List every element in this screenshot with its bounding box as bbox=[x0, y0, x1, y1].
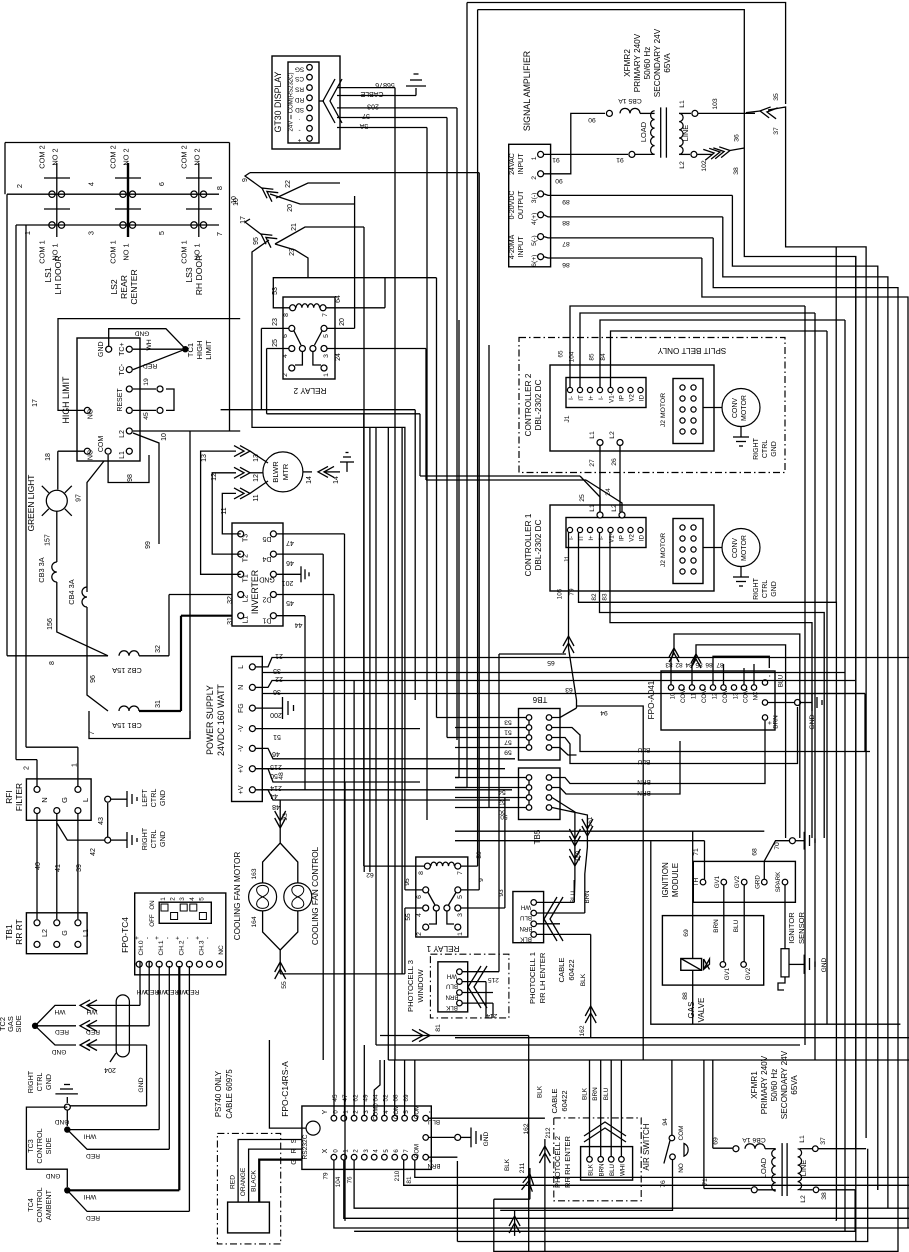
svg-text:GND: GND bbox=[158, 790, 167, 806]
svg-text:19: 19 bbox=[143, 378, 150, 386]
svg-text:23: 23 bbox=[289, 248, 296, 256]
svg-text:WH: WH bbox=[86, 1008, 97, 1015]
svg-text:GND: GND bbox=[259, 575, 275, 582]
svg-text:20: 20 bbox=[339, 318, 346, 326]
svg-text:85: 85 bbox=[589, 353, 596, 361]
svg-text:OFF: OFF bbox=[149, 914, 156, 927]
left bottom wires bbox=[344, 782, 346, 1221]
FPO-C14RS gnd bbox=[429, 1128, 491, 1148]
svg-text:J2 MOTOR: J2 MOTOR bbox=[660, 533, 667, 567]
breaker CB2 15A bbox=[7, 595, 232, 676]
svg-text:L1: L1 bbox=[589, 431, 596, 439]
wire 18 NC to lamp bbox=[45, 451, 84, 489]
svg-text:I+: I+ bbox=[588, 535, 595, 541]
svg-text:WH: WH bbox=[447, 973, 457, 980]
svg-text:CB4 3A: CB4 3A bbox=[67, 579, 76, 605]
svg-text:17: 17 bbox=[32, 399, 39, 407]
svg-text:L1: L1 bbox=[243, 616, 250, 624]
svg-text:-: - bbox=[144, 937, 151, 939]
svg-text:GT30 DISPLAY: GT30 DISPLAY bbox=[273, 71, 283, 132]
svg-text:BLU: BLU bbox=[570, 891, 577, 903]
svg-text:161: 161 bbox=[587, 816, 594, 827]
svg-text:GND: GND bbox=[771, 441, 778, 457]
svg-text:SD: SD bbox=[295, 106, 304, 113]
thermocouple TC2 bbox=[0, 961, 149, 1055]
wire 1 left bbox=[26, 225, 78, 786]
svg-text:RED: RED bbox=[86, 1214, 100, 1221]
photocell2 wires up bbox=[581, 1060, 621, 1157]
cable sleeve 204 bbox=[104, 995, 129, 1073]
svg-text:COM 1: COM 1 bbox=[109, 240, 118, 263]
svg-text:3(-): 3(-) bbox=[531, 193, 538, 204]
svg-text:7: 7 bbox=[457, 871, 464, 875]
svg-text:D2: D2 bbox=[262, 596, 271, 603]
svg-text:50: 50 bbox=[500, 813, 508, 820]
svg-text:35: 35 bbox=[773, 93, 780, 101]
svg-text:23: 23 bbox=[272, 318, 279, 326]
svg-text:69: 69 bbox=[712, 1137, 719, 1145]
svg-text:INVERTER: INVERTER bbox=[250, 570, 260, 614]
svg-text:IP: IP bbox=[619, 395, 626, 401]
svg-text:V2: V2 bbox=[629, 534, 636, 542]
svg-text:BLU: BLU bbox=[603, 1087, 610, 1100]
svg-text:MODULE: MODULE bbox=[671, 863, 680, 897]
svg-text:162: 162 bbox=[579, 1025, 586, 1036]
svg-text:BRN: BRN bbox=[599, 1163, 606, 1176]
svg-text:BRN: BRN bbox=[519, 925, 532, 932]
limit switch LS3 bbox=[180, 145, 213, 295]
svg-text:47: 47 bbox=[286, 539, 294, 546]
svg-text:10: 10 bbox=[233, 198, 240, 206]
svg-text:RED: RED bbox=[143, 362, 157, 369]
air switch S2 bbox=[500, 1060, 688, 1210]
svg-text:+: + bbox=[194, 936, 201, 940]
svg-text:V1-: V1- bbox=[609, 393, 616, 403]
svg-text:L1: L1 bbox=[799, 1135, 806, 1143]
svg-text:BLK: BLK bbox=[537, 1085, 544, 1098]
svg-text:2: 2 bbox=[416, 932, 423, 936]
wire 8 left bbox=[6, 194, 8, 656]
svg-text:203: 203 bbox=[367, 103, 379, 110]
svg-text:87: 87 bbox=[562, 240, 570, 247]
svg-text:3: 3 bbox=[87, 231, 96, 235]
svg-text:35: 35 bbox=[273, 667, 281, 674]
svg-text:J1: J1 bbox=[564, 555, 571, 562]
svg-text:LINE: LINE bbox=[799, 1160, 808, 1177]
svg-text:4: 4 bbox=[282, 354, 289, 358]
svg-text:LEFT: LEFT bbox=[140, 789, 149, 807]
svg-text:48: 48 bbox=[278, 772, 285, 780]
svg-text:1: 1 bbox=[323, 373, 330, 377]
thermocouple TC3 bbox=[26, 966, 169, 1164]
right bus verticals bbox=[805, 247, 865, 1241]
FPO-C14RS BLU BRN side wires bbox=[429, 1118, 545, 1157]
svg-text:COM: COM bbox=[98, 436, 105, 453]
wire 5A bbox=[337, 88, 427, 467]
svg-text:RS: RS bbox=[295, 86, 304, 93]
svg-text:I+: I+ bbox=[588, 395, 595, 401]
svg-text:+V: +V bbox=[238, 764, 245, 773]
terminal block TB5 bbox=[498, 768, 560, 844]
svg-text:6: 6 bbox=[282, 334, 289, 338]
svg-text:17: 17 bbox=[240, 216, 247, 224]
svg-text:NC: NC bbox=[754, 691, 760, 700]
svg-text:+V: +V bbox=[238, 785, 245, 794]
svg-text:24VAC: 24VAC bbox=[509, 153, 516, 175]
svg-text:+: + bbox=[297, 136, 301, 143]
svg-text:L1: L1 bbox=[679, 100, 686, 108]
svg-text:PHOTOCELL 2: PHOTOCELL 2 bbox=[553, 1136, 562, 1188]
svg-text:104: 104 bbox=[335, 1176, 342, 1187]
svg-text:COM 2: COM 2 bbox=[180, 145, 189, 168]
svg-text:36: 36 bbox=[273, 688, 281, 695]
wire channel verticals bbox=[364, 278, 499, 1060]
relay2 bottom wires bbox=[190, 410, 415, 739]
svg-text:CTRL: CTRL bbox=[149, 789, 158, 808]
FPO-C14RS Y wires up bbox=[354, 681, 415, 1116]
svg-text:INPUT: INPUT bbox=[518, 153, 525, 175]
svg-text:SIGNAL AMPLIFIER: SIGNAL AMPLIFIER bbox=[522, 51, 532, 131]
svg-text:45: 45 bbox=[332, 1094, 339, 1102]
svg-text:+: + bbox=[154, 936, 161, 940]
svg-text:44: 44 bbox=[295, 621, 303, 628]
svg-text:96: 96 bbox=[90, 675, 97, 683]
svg-text:24VDC 160 WATT: 24VDC 160 WATT bbox=[216, 683, 226, 755]
svg-text:BRN: BRN bbox=[592, 1087, 599, 1101]
ignition wires top bbox=[693, 832, 815, 879]
svg-text:GREEN LIGHT: GREEN LIGHT bbox=[26, 475, 36, 532]
svg-text:WH: WH bbox=[521, 903, 531, 910]
FPO-A041 wires up to bus bbox=[669, 634, 800, 838]
svg-text:NO 2: NO 2 bbox=[193, 148, 202, 165]
svg-text:COM: COM bbox=[723, 689, 729, 703]
relay 1 K1 bbox=[416, 857, 468, 953]
svg-text:89: 89 bbox=[562, 198, 570, 205]
svg-text:INPUT: INPUT bbox=[518, 236, 525, 258]
svg-text:81: 81 bbox=[406, 1176, 413, 1184]
bus wire 36-38 bbox=[478, 10, 856, 1148]
svg-text:WHI: WHI bbox=[83, 1193, 96, 1200]
svg-text:LOAD: LOAD bbox=[759, 1158, 768, 1178]
svg-text:Y: Y bbox=[322, 1109, 329, 1114]
svg-text:13: 13 bbox=[201, 454, 208, 462]
svg-text:37: 37 bbox=[773, 127, 780, 135]
svg-text:88: 88 bbox=[682, 992, 689, 1000]
svg-text:L: L bbox=[238, 665, 245, 669]
svg-text:CTRL: CTRL bbox=[35, 1073, 44, 1092]
bus wire 86 bbox=[702, 258, 908, 1220]
svg-text:CONV: CONV bbox=[732, 398, 739, 419]
inverter D wires bbox=[277, 534, 345, 1116]
svg-text:88: 88 bbox=[562, 219, 570, 226]
right ctrl gnd node2 bbox=[90, 803, 167, 856]
svg-text:J1: J1 bbox=[564, 415, 571, 422]
svg-text:10: 10 bbox=[161, 433, 168, 441]
svg-text:CABLE: CABLE bbox=[550, 1089, 559, 1114]
svg-text:63: 63 bbox=[565, 686, 573, 693]
svg-text:21: 21 bbox=[275, 652, 283, 659]
svg-text:XFMR2: XFMR2 bbox=[623, 49, 632, 77]
svg-text:SIDE: SIDE bbox=[14, 1015, 23, 1032]
svg-text:WHI: WHI bbox=[83, 1133, 96, 1140]
signal amplifier U3 bbox=[509, 51, 551, 267]
svg-text:32: 32 bbox=[155, 645, 162, 653]
svg-text:86: 86 bbox=[705, 661, 713, 668]
svg-text:37: 37 bbox=[820, 1137, 827, 1145]
svg-text:TB6: TB6 bbox=[532, 695, 547, 704]
gas valve box bbox=[662, 916, 763, 1023]
svg-text:RIGHT: RIGHT bbox=[140, 827, 149, 850]
svg-text:79: 79 bbox=[323, 1172, 330, 1180]
svg-text:RED: RED bbox=[86, 1152, 100, 1159]
svg-text:BLU: BLU bbox=[609, 1164, 616, 1176]
controller 2 U4 bbox=[524, 365, 714, 451]
svg-text:GV1: GV1 bbox=[724, 967, 731, 980]
svg-text:46: 46 bbox=[272, 750, 280, 757]
svg-text:-V: -V bbox=[238, 745, 245, 752]
FPO-C14RS-A module bbox=[280, 1061, 441, 1169]
svg-text:SPARK: SPARK bbox=[775, 871, 782, 892]
svg-text:SECONDARY 24V: SECONDARY 24V bbox=[653, 28, 662, 97]
svg-text:212: 212 bbox=[545, 1127, 552, 1138]
svg-text:LH DOOR: LH DOOR bbox=[53, 255, 63, 294]
svg-text:27: 27 bbox=[589, 459, 596, 467]
svg-text:-: - bbox=[298, 126, 300, 133]
svg-text:AMBENT: AMBENT bbox=[44, 1189, 53, 1220]
right ctrl gnd node3 bbox=[26, 1070, 78, 1125]
svg-text:20: 20 bbox=[287, 204, 294, 212]
FPO-A041 gnd bbox=[768, 694, 822, 730]
svg-text:I-: I- bbox=[568, 396, 575, 400]
wires into TB6 TB5 from channel bbox=[437, 718, 468, 788]
svg-text:-: - bbox=[164, 937, 171, 939]
svg-text:91: 91 bbox=[552, 156, 560, 163]
svg-text:BRN: BRN bbox=[584, 890, 591, 903]
svg-text:79: 79 bbox=[569, 588, 576, 596]
svg-text:RR RT: RR RT bbox=[14, 919, 24, 944]
svg-text:3: 3 bbox=[179, 897, 186, 901]
svg-text:157: 157 bbox=[45, 534, 52, 546]
svg-text:G: G bbox=[60, 930, 69, 936]
ground symbol G1 bbox=[406, 74, 426, 86]
bus wire 87 bbox=[713, 238, 898, 1210]
svg-text:25: 25 bbox=[272, 339, 279, 347]
svg-text:2: 2 bbox=[24, 766, 31, 770]
XFMR2 secondary wires bbox=[679, 98, 755, 175]
TB5 left wires bbox=[455, 778, 526, 808]
svg-text:FPO-C14RS-A: FPO-C14RS-A bbox=[280, 1061, 290, 1117]
svg-text:LS3: LS3 bbox=[184, 267, 194, 283]
svg-text:59: 59 bbox=[504, 749, 512, 756]
breaker CB4 3A bbox=[67, 579, 87, 688]
svg-text:83: 83 bbox=[602, 593, 609, 601]
svg-text:94: 94 bbox=[600, 709, 608, 716]
arrows 162 212 211 bbox=[494, 1085, 552, 1252]
ctrl1 J1 wires down bbox=[499, 533, 836, 1220]
svg-text:X: X bbox=[322, 1148, 329, 1153]
svg-text:164: 164 bbox=[251, 916, 258, 927]
gas valve wires bbox=[693, 831, 745, 1024]
svg-text:SPLIT BELT ONLY: SPLIT BELT ONLY bbox=[657, 346, 726, 355]
svg-text:NO 2: NO 2 bbox=[122, 148, 131, 165]
bus horizontals right mid bbox=[673, 693, 866, 695]
svg-text:CB5 1A: CB5 1A bbox=[618, 97, 642, 104]
svg-text:CTRL: CTRL bbox=[149, 830, 158, 849]
svg-text:BLK: BLK bbox=[580, 973, 587, 986]
svg-text:90: 90 bbox=[555, 177, 563, 184]
svg-text:82: 82 bbox=[591, 593, 598, 601]
svg-text:5(-): 5(-) bbox=[531, 235, 538, 246]
svg-text:24: 24 bbox=[605, 488, 612, 496]
ground G2 bbox=[340, 453, 354, 472]
svg-text:NC: NC bbox=[218, 945, 225, 955]
svg-text:45: 45 bbox=[286, 599, 294, 606]
junction arrows top 9-22-20-10 bbox=[233, 173, 479, 212]
svg-text:50/60 Hz: 50/60 Hz bbox=[770, 1069, 779, 1102]
svg-text:214: 214 bbox=[486, 1012, 497, 1019]
svg-text:GND: GND bbox=[771, 581, 778, 597]
svg-text:D4: D4 bbox=[262, 555, 271, 562]
wire G to gnd bbox=[57, 814, 105, 840]
svg-text:41: 41 bbox=[55, 864, 62, 872]
svg-text:24V ═ COM(RS232C): 24V ═ COM(RS232C) bbox=[289, 73, 295, 132]
wire 90 breaker CB5 bbox=[544, 97, 655, 184]
svg-text:53: 53 bbox=[272, 287, 279, 295]
reset pushbutton S1 bbox=[133, 378, 174, 420]
svg-text:TB1: TB1 bbox=[4, 924, 14, 940]
svg-text:95: 95 bbox=[404, 878, 411, 886]
wire 10 from L2 bbox=[133, 431, 240, 731]
svg-text:WH: WH bbox=[146, 339, 153, 350]
svg-text:T3: T3 bbox=[243, 534, 250, 542]
svg-text:LINE: LINE bbox=[681, 125, 690, 142]
conveyor motor M2 bbox=[704, 389, 761, 427]
bus wire 89 bbox=[732, 195, 877, 1190]
ctrl2 J1 wires up bbox=[558, 306, 846, 387]
svg-text:GAS: GAS bbox=[687, 1002, 696, 1019]
inverter U2 bbox=[232, 523, 283, 626]
relay1 wires bbox=[364, 173, 507, 974]
svg-text:5A: 5A bbox=[359, 122, 368, 129]
svg-text:TC4: TC4 bbox=[26, 1198, 35, 1212]
svg-text:+: + bbox=[134, 936, 141, 940]
svg-text:21: 21 bbox=[291, 223, 298, 231]
inverter wire labels bbox=[227, 539, 302, 628]
svg-text:RH DOOR: RH DOOR bbox=[194, 255, 204, 296]
blower motor B1 bbox=[263, 452, 303, 492]
svg-text:1: 1 bbox=[457, 932, 464, 936]
svg-text:91: 91 bbox=[616, 156, 624, 163]
svg-text:12: 12 bbox=[253, 474, 260, 482]
svg-text:40: 40 bbox=[35, 862, 42, 870]
svg-text:8: 8 bbox=[418, 871, 425, 875]
svg-text:7: 7 bbox=[89, 731, 96, 735]
svg-text:CONTROLLER 2: CONTROLLER 2 bbox=[524, 373, 533, 436]
svg-text:+: + bbox=[174, 936, 181, 940]
svg-text:GRD: GRD bbox=[754, 875, 761, 889]
wire 81 arrows bbox=[380, 1024, 529, 1042]
svg-text:T2: T2 bbox=[243, 554, 250, 562]
svg-text:5: 5 bbox=[157, 231, 166, 235]
wire 48 93 arrows bbox=[275, 772, 289, 830]
wire to RS232 port bbox=[269, 1040, 306, 1128]
svg-text:CB3 3A: CB3 3A bbox=[37, 557, 46, 583]
svg-text:NO: NO bbox=[88, 408, 95, 419]
svg-text:6: 6 bbox=[157, 182, 166, 186]
ctrl1 L1 L2 pins bbox=[589, 504, 625, 518]
svg-text:65VA: 65VA bbox=[790, 1075, 799, 1095]
wire 17 bbox=[32, 319, 240, 411]
svg-text:N: N bbox=[238, 685, 245, 690]
svg-text:102: 102 bbox=[701, 160, 708, 172]
svg-text:56876: 56876 bbox=[375, 81, 395, 88]
XFMR1 secondary wires bbox=[799, 1135, 866, 1203]
svg-text:RED: RED bbox=[55, 1028, 69, 1035]
svg-text:RELAY 2: RELAY 2 bbox=[293, 386, 326, 395]
svg-text:IGNITION: IGNITION bbox=[661, 862, 670, 898]
svg-text:32: 32 bbox=[227, 596, 234, 604]
svg-text:39: 39 bbox=[76, 864, 83, 872]
svg-text:VALVE: VALVE bbox=[697, 998, 706, 1023]
svg-text:1: 1 bbox=[72, 763, 79, 767]
svg-text:1: 1 bbox=[531, 156, 538, 160]
svg-text:COM: COM bbox=[678, 1126, 685, 1141]
svg-text:BRN: BRN bbox=[713, 919, 720, 933]
svg-text:156: 156 bbox=[47, 618, 54, 630]
terminal block TB6 bbox=[504, 695, 560, 760]
svg-text:GV2: GV2 bbox=[745, 967, 752, 980]
right ctrl gnd M2 bbox=[733, 427, 778, 460]
svg-text:3: 3 bbox=[457, 913, 464, 917]
svg-text:99: 99 bbox=[145, 541, 152, 549]
svg-text:6(+): 6(+) bbox=[531, 255, 538, 267]
svg-text:BLK: BLK bbox=[504, 1158, 511, 1171]
svg-text:163: 163 bbox=[251, 868, 258, 879]
FPO-A041 module bbox=[647, 671, 785, 730]
svg-text:SIDE: SIDE bbox=[44, 1137, 53, 1154]
relay2 wire 25 bbox=[267, 339, 420, 476]
svg-text:BRN: BRN bbox=[445, 994, 458, 1001]
svg-text:26: 26 bbox=[611, 458, 618, 466]
svg-text:55: 55 bbox=[405, 913, 412, 921]
svg-text:COM 1: COM 1 bbox=[180, 240, 189, 263]
ignition outer box bbox=[455, 831, 909, 1037]
svg-text:D5: D5 bbox=[262, 535, 271, 542]
svg-text:5: 5 bbox=[457, 895, 464, 899]
svg-text:43: 43 bbox=[98, 817, 105, 825]
svg-text:8: 8 bbox=[283, 313, 290, 317]
inverter gnd bbox=[277, 566, 309, 582]
svg-text:PHOTOCELL 3: PHOTOCELL 3 bbox=[406, 960, 415, 1012]
svg-text:L2: L2 bbox=[243, 595, 250, 603]
svg-text:J2 MOTOR: J2 MOTOR bbox=[660, 393, 667, 427]
svg-text:IT: IT bbox=[578, 395, 585, 401]
svg-text:14: 14 bbox=[333, 476, 340, 484]
svg-text:WHI: WHI bbox=[619, 1164, 626, 1176]
svg-text:70: 70 bbox=[774, 842, 781, 850]
svg-text:50/60 Hz: 50/60 Hz bbox=[643, 47, 652, 80]
svg-text:FG: FG bbox=[238, 703, 245, 713]
svg-text:CONTROL: CONTROL bbox=[35, 1128, 44, 1163]
svg-text:PRIMARY 240V: PRIMARY 240V bbox=[760, 1055, 769, 1114]
wires G R S bbox=[229, 1138, 302, 1202]
high limit box bbox=[61, 338, 140, 461]
svg-text:8: 8 bbox=[215, 186, 224, 190]
svg-text:-: - bbox=[204, 937, 211, 939]
wires 25 24 from relay2 bbox=[420, 476, 622, 512]
svg-text:REAR: REAR bbox=[119, 275, 129, 299]
svg-text:86: 86 bbox=[562, 261, 570, 268]
